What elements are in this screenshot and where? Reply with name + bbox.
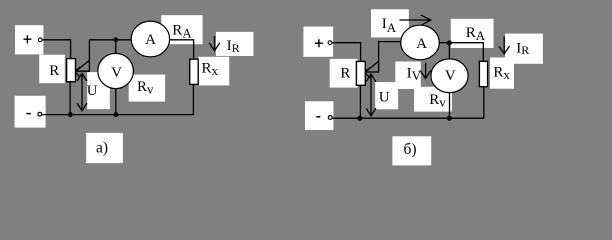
plus sign b: [315, 39, 323, 47]
node junction bottom below V: [113, 112, 118, 117]
terminal circle -: [38, 112, 42, 116]
wire bottom rail: [42, 84, 193, 114]
svg-text:V: V: [111, 65, 122, 81]
arrow IV current b: [425, 63, 427, 78]
label box U: [87, 72, 110, 109]
svg-text:A: A: [416, 36, 427, 52]
svg-text:RA: RA: [466, 25, 486, 43]
ammeter A circle: [131, 21, 169, 57]
arrow IR current: [214, 36, 216, 50]
node junction bottom below V b: [447, 116, 452, 121]
wire top to ammeter: [89, 39, 131, 41]
svg-text:Rv: Rv: [137, 79, 154, 96]
label box Rv: [129, 75, 165, 102]
ammeter A circle b: [401, 25, 440, 60]
arrow U voltage: [81, 74, 83, 110]
wire V branch bottom: [115, 88, 117, 114]
wire bottom rail b: [332, 87, 484, 119]
resistor Rx b: [479, 61, 487, 86]
svg-text:IR: IR: [227, 38, 240, 55]
label box - terminal b: [305, 101, 333, 130]
terminal circle - b: [328, 116, 332, 120]
label box RA: [161, 15, 202, 44]
label box Rx b: [490, 58, 514, 89]
svg-text:Rv: Rv: [429, 92, 446, 109]
label box + terminal: [15, 25, 43, 54]
terminal circle +: [38, 38, 42, 42]
label box a): [86, 133, 123, 163]
label box Rv b: [414, 87, 452, 112]
label box IV b: [395, 62, 421, 90]
label box R: [39, 55, 65, 83]
svg-text:а): а): [96, 140, 108, 157]
label box - terminal: [15, 96, 46, 128]
resistor R b (rheostat): [356, 61, 365, 85]
wire V branch top: [115, 40, 117, 54]
wire below rheostat R b: [359, 85, 361, 118]
resistor R (rheostat): [67, 59, 76, 82]
svg-text:A: A: [145, 32, 156, 48]
label box IR: [216, 32, 254, 56]
minus sign: [26, 113, 31, 115]
svg-text:Rx: Rx: [493, 64, 510, 82]
terminal circle + b: [328, 41, 332, 45]
wire wiper riser to top wire: [76, 40, 89, 71]
voltmeter V circle: [98, 53, 134, 88]
label box + terminal b: [303, 27, 333, 57]
wire from + terminal b to rheostat R top: [332, 43, 361, 62]
label box U b: [375, 82, 398, 109]
svg-text:Rx: Rx: [202, 61, 219, 79]
voltmeter V circle b: [431, 59, 468, 93]
wire V branch bottom b: [449, 93, 451, 119]
label box IR b: [505, 34, 543, 64]
wire V branch top b: [448, 43, 450, 59]
arrow IA current b: [399, 19, 430, 21]
svg-text:IV: IV: [407, 65, 422, 83]
node junction bottom below R: [68, 112, 73, 117]
wire ammeter b to Rx b: [439, 43, 483, 62]
plus sign: [23, 35, 31, 43]
label box RA b: [451, 19, 494, 48]
arrow IR current b: [503, 37, 505, 54]
label box b): [392, 136, 431, 165]
node junction right of A b: [447, 40, 452, 45]
wire below rheostat R: [69, 82, 71, 115]
svg-text:U: U: [87, 83, 98, 99]
node junction top V branch: [113, 37, 118, 42]
wire ammeter to Rx: [169, 40, 193, 59]
label box IA b: [371, 9, 409, 37]
svg-text:R: R: [340, 66, 350, 82]
wire wiper riser to ammeter b: [366, 42, 401, 72]
svg-text:R: R: [49, 63, 59, 79]
wire wiper arrow into R b: [366, 61, 379, 71]
label box R b: [330, 59, 358, 88]
label box Rx: [198, 57, 229, 86]
arrow U voltage b: [370, 75, 372, 116]
wire from + terminal to rheostat R top: [42, 40, 70, 59]
svg-text:IR: IR: [516, 40, 529, 57]
minus sign b: [316, 116, 320, 118]
svg-text:б): б): [403, 141, 416, 158]
node junction bottom below R b: [357, 116, 362, 121]
svg-text:RA: RA: [172, 22, 192, 40]
resistor Rx: [190, 59, 199, 84]
svg-text:U: U: [379, 89, 390, 105]
svg-text:V: V: [445, 68, 456, 84]
wire wiper arrow into R: [76, 60, 89, 70]
